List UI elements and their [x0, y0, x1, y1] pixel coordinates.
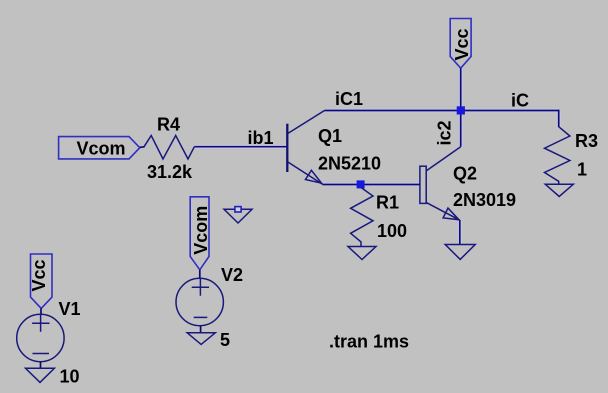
- svg-text:V2: V2: [221, 265, 243, 285]
- svg-text:V1: V1: [59, 299, 81, 319]
- svg-text:1: 1: [577, 160, 587, 180]
- ground (Q2 emitter): [445, 245, 475, 260]
- voltage source V2: [176, 197, 223, 345]
- svg-text:iC: iC: [511, 91, 529, 111]
- svg-text:.tran 1ms: .tran 1ms: [329, 332, 409, 352]
- ground (R3): [545, 184, 573, 196]
- svg-text:R4: R4: [157, 115, 180, 135]
- resistor R4: [144, 136, 194, 160]
- V2 body: [176, 278, 223, 325]
- wire Q2 emitter to ground: [459, 220, 461, 244]
- svg-text:Vcc: Vcc: [29, 259, 49, 291]
- wire flag to V2: [199, 270, 201, 279]
- transistor Q1: [287, 111, 324, 185]
- transistor Q2: [420, 147, 461, 221]
- svg-text:Vcom: Vcom: [191, 206, 211, 255]
- svg-text:10: 10: [60, 367, 80, 387]
- svg-text:100: 100: [377, 221, 407, 241]
- svg-text:R1: R1: [376, 193, 399, 213]
- svg-text:ic2: ic2: [435, 120, 455, 145]
- junction (emitter node): [357, 180, 365, 188]
- V1 body: [17, 314, 64, 361]
- svg-text:ib1: ib1: [248, 128, 274, 148]
- svg-text:Q1: Q1: [318, 126, 342, 146]
- wire flag to V1: [40, 308, 42, 315]
- ground (V1): [26, 368, 55, 382]
- wire V1 to ground: [40, 362, 42, 369]
- svg-text:31.2k: 31.2k: [147, 162, 193, 182]
- junction (iC node): [457, 106, 465, 114]
- resistor R3: [545, 127, 570, 185]
- svg-text:2N3019: 2N3019: [453, 190, 516, 210]
- voltage source V1: [17, 254, 64, 382]
- flag Vcc (top): [450, 19, 472, 69]
- ground (R1): [348, 247, 376, 260]
- wire iC1 (top rail): [325, 110, 559, 112]
- wire junction down to Q2 collector: [460, 111, 462, 147]
- svg-text:Vcc: Vcc: [452, 28, 472, 60]
- svg-text:Vcom: Vcom: [77, 139, 126, 159]
- flag Vcom (left net flag): [59, 137, 140, 159]
- wire Q1 emitter to Q2 base: [323, 184, 420, 186]
- wire halos: [194, 68, 558, 244]
- svg-text:5: 5: [220, 330, 230, 350]
- ground (V2): [187, 333, 215, 345]
- svg-text:2N5210: 2N5210: [318, 154, 381, 174]
- wire Vcc flag to junction: [460, 68, 462, 110]
- wire corner to R3: [558, 110, 560, 127]
- flag Vcc (V1): [31, 254, 53, 308]
- svg-text:R3: R3: [575, 131, 598, 151]
- wire flag to R4: [140, 146, 145, 149]
- floating ground flag: [224, 207, 252, 223]
- svg-text:Q2: Q2: [453, 164, 477, 184]
- wire R4 to Q1 base: [194, 146, 287, 148]
- svg-text:iC1: iC1: [335, 89, 363, 109]
- resistor R1: [351, 188, 373, 247]
- flag Vcom (V2): [190, 197, 209, 270]
- wire V2 to ground: [200, 326, 202, 333]
